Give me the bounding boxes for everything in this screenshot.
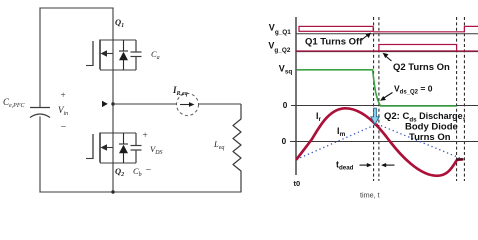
svg-text:+: + (60, 90, 66, 100)
dashed event line 2 (Q2 turn-on) (378, 17, 380, 181)
waveform Vsq (green) (297, 70, 457, 106)
Vg_Q2 baseline (296, 51, 478, 53)
svg-text:+: + (142, 130, 148, 140)
svg-text:Q1 Turns Off: Q1 Turns Off (305, 36, 363, 47)
Vsq zero axis (291, 105, 478, 107)
wire current source to inductor (199, 103, 242, 105)
wire main vertical (half-bridge leg) (112, 8, 114, 192)
wire bottom rail (40, 191, 241, 193)
circuit text labels (3, 17, 224, 178)
capacitor Cb (Q2 drain-source cap) (131, 133, 142, 163)
annotation Q2: Cds discharge block (384, 111, 465, 143)
junction bottom (111, 190, 114, 193)
svg-text:−: − (60, 122, 67, 133)
node A junction dot (111, 102, 114, 105)
wire left lower (39, 117, 41, 192)
Vg_Q1 baseline (296, 33, 478, 35)
capacitor Ce,PFC (input, polarized) (30, 108, 50, 118)
diode D1 (body diode of Q1) (119, 40, 128, 70)
svg-text:Turns On: Turns On (409, 132, 451, 143)
arrow inside current source (180, 104, 191, 106)
chart axis labels (268, 22, 379, 199)
tdead arrows (360, 164, 369, 166)
inductor Leq (zigzag) (233, 104, 241, 192)
dashed event line 3 (Q2 turn-off) (456, 17, 458, 181)
svg-text:time, t: time, t (360, 190, 380, 199)
blue arrow (Cds discharge marker) (371, 108, 379, 124)
svg-text:0: 0 (282, 137, 287, 146)
waveform Vg_Q2 low segments (296, 50, 379, 52)
waveform Im (blue dotted magnetizing current) (296, 124, 463, 160)
dashed event line 4 (Q1 turn-on) (463, 17, 465, 181)
waveform Ir (red tank current sine) (296, 108, 463, 176)
waveform Vg_Q1 pulse (299, 26, 373, 31)
svg-text:t0: t0 (294, 179, 301, 188)
diode D2 (body diode of Q2) (119, 133, 128, 163)
wire left upper (39, 8, 41, 107)
y axis (295, 17, 297, 175)
dashed event line 1 (Q1 turn-off) (373, 17, 375, 181)
waveform Vg_Q1 low + next pulse (373, 26, 478, 31)
transistor Q1 (upper MOSFET) (86, 40, 136, 71)
wire top rail (40, 7, 113, 9)
svg-text:Q2 Turns On: Q2 Turns On (393, 62, 450, 73)
capacitor Ca (Q1 drain-source cap) (131, 40, 142, 70)
transistor Q2 (lower MOSFET) (86, 133, 136, 164)
current source IR,eq (dashed circle) (177, 94, 199, 116)
wire mid node to current source (113, 103, 177, 105)
svg-text:0: 0 (283, 101, 288, 110)
svg-text:−: − (145, 165, 152, 176)
node A marker (102, 101, 108, 107)
waveform Vg_Q2 pulse (379, 45, 457, 51)
current zero axis (290, 141, 478, 143)
Ir end tick (current at next transition) (456, 158, 464, 160)
